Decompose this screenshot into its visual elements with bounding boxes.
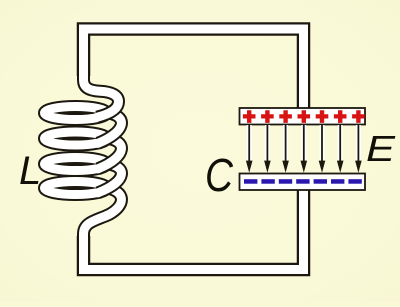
field arrow 7	[355, 125, 362, 173]
svg-text:E: E	[366, 128, 396, 169]
field arrow 2	[264, 125, 271, 173]
field arrow 1	[246, 125, 253, 173]
coil turn 3	[44, 157, 121, 192]
svg-text:L: L	[19, 149, 41, 193]
plus charge 5	[316, 110, 329, 123]
plus charge 6	[334, 110, 347, 123]
plus charge 4	[298, 110, 311, 123]
field arrow 4	[301, 125, 308, 173]
minus charge 2	[261, 179, 274, 184]
plus charge 2	[261, 110, 274, 123]
capacitor top plate	[240, 108, 366, 125]
minus charge 3	[279, 179, 292, 184]
plus charge 3	[279, 110, 292, 123]
wire segment: left upper + top + right upper (loop to capacitor top plate)	[84, 29, 304, 116]
plus charge 1	[243, 110, 256, 123]
plus charges on top plate	[243, 110, 365, 123]
field arrow 3	[282, 125, 289, 173]
coil turn 1	[44, 106, 121, 143]
field arrow 5	[319, 125, 326, 173]
inductor L: coil turn 4 (bottom ring + exit wire)	[44, 181, 121, 250]
capacitor bottom plate	[240, 174, 366, 191]
minus charge 6	[331, 179, 344, 184]
minus charge 4	[296, 179, 309, 184]
svg-text:C: C	[205, 149, 234, 201]
minus charge 7	[348, 179, 361, 184]
minus charge 1	[244, 179, 257, 184]
minus charges on bottom plate	[244, 179, 362, 184]
coil turn 2	[44, 132, 121, 169]
minus charge 5	[314, 179, 327, 184]
field arrow 6	[337, 125, 344, 173]
coil entry from top wire	[84, 58, 119, 117]
plus charge 7	[352, 110, 365, 123]
electric field E arrows (white halo + 7 arrows)	[246, 125, 362, 173]
wire segment: right lower + bottom + left lower (capacitor bottom plate to coil)	[84, 182, 304, 270]
